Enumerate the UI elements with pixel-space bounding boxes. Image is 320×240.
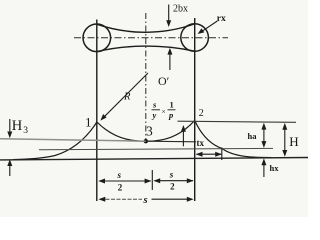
svg-text:H: H — [289, 134, 298, 149]
dimension s full — [100, 198, 142, 200]
beam bottom edge — [97, 46, 195, 52]
svg-text:s: s — [143, 195, 148, 206]
svg-text:1: 1 — [85, 115, 92, 130]
dimension ha — [263, 126, 265, 145]
svg-text:2bx: 2bx — [173, 4, 188, 15]
left tail curve — [13, 122, 97, 160]
fraction s/2 left — [117, 170, 123, 193]
svg-text:3: 3 — [23, 126, 28, 136]
right drain circle — [181, 24, 209, 52]
left vertical wall — [96, 20, 98, 202]
water table line right of node 3 — [146, 140, 196, 143]
svg-text:H: H — [12, 118, 23, 134]
center axis vertical — [145, 13, 147, 141]
water table line left — [0, 139, 146, 141]
dimension H — [284, 126, 286, 154]
dimension s/2 right — [155, 180, 194, 182]
radius line R with arrowhead at node 1 — [103, 73, 148, 118]
fraction s/2 right — [169, 170, 175, 192]
svg-text:s: s — [117, 170, 122, 180]
top reference line at crest level — [178, 121, 297, 122]
svg-text:O′: O′ — [158, 74, 170, 88]
middle tick of s/2 dims — [151, 170, 153, 190]
depression curve arc 1-3-2 — [97, 121, 195, 142]
arrow hx up — [263, 164, 265, 177]
right tail curve — [195, 121, 272, 158]
svg-text:y: y — [152, 110, 157, 120]
H3 down arrow — [9, 119, 11, 133]
svg-text:hx: hx — [270, 163, 280, 173]
beam top edge — [97, 24, 195, 32]
svg-text:2: 2 — [199, 108, 204, 119]
svg-text:ha: ha — [248, 131, 258, 141]
base line — [0, 158, 308, 160]
svg-text:rx: rx — [217, 14, 226, 24]
svg-text:R: R — [123, 92, 131, 103]
horizontal centerline through circles — [74, 37, 228, 39]
fraction label s/y x 1/p — [152, 100, 176, 121]
svg-text:1: 1 — [170, 100, 174, 110]
tick at x dimension end — [221, 148, 223, 161]
svg-text:3: 3 — [146, 124, 153, 139]
dimension s/2 left — [100, 180, 151, 182]
svg-text:s: s — [152, 100, 157, 110]
dimension arrow 2bx down — [168, 5, 170, 22]
H3 up arrow — [9, 165, 11, 176]
left drain circle — [83, 24, 111, 52]
svg-text:2: 2 — [118, 183, 123, 193]
svg-text:2: 2 — [170, 182, 175, 192]
horizontal dimension x — [197, 153, 222, 155]
mid water line — [39, 148, 273, 149]
dimension arrow 2bx up — [169, 53, 171, 70]
vertical arrow near node 2 — [182, 130, 184, 146]
svg-text:s: s — [169, 170, 174, 180]
svg-text:×: × — [162, 107, 166, 116]
right vertical wall — [194, 18, 196, 201]
svg-text:p: p — [168, 110, 173, 120]
svg-text:tx: tx — [197, 138, 205, 148]
leader arrow rx to circle center — [202, 21, 217, 31]
node 3 dot — [144, 139, 148, 143]
